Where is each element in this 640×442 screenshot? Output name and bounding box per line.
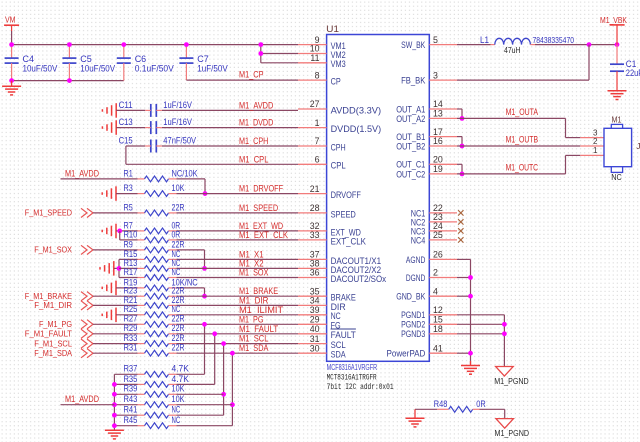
svg-text:SDA: SDA — [331, 349, 347, 360]
svg-text:R43: R43 — [124, 394, 138, 404]
svg-text:AGND: AGND — [406, 254, 426, 265]
svg-text:2: 2 — [593, 137, 598, 146]
svg-text:10uF/50V: 10uF/50V — [23, 64, 58, 74]
svg-text:FB_BK: FB_BK — [401, 75, 426, 86]
svg-text:M1_OUTA: M1_OUTA — [506, 107, 539, 117]
svg-text:L1: L1 — [480, 35, 489, 45]
svg-text:R37: R37 — [124, 364, 138, 374]
svg-text:R45: R45 — [124, 415, 138, 425]
svg-text:VM: VM — [5, 16, 16, 25]
svg-text:M1_VBK: M1_VBK — [600, 15, 627, 25]
svg-text:1uF/16V: 1uF/16V — [163, 100, 192, 110]
svg-text:AVDD(3.3V): AVDD(3.3V) — [331, 104, 382, 115]
svg-text:22R: 22R — [172, 202, 185, 212]
svg-text:47nF/50V: 47nF/50V — [163, 135, 196, 145]
svg-text:DRVOFF: DRVOFF — [331, 189, 362, 200]
svg-text:EXT_CLK: EXT_CLK — [331, 235, 367, 246]
svg-text:1: 1 — [593, 146, 598, 155]
svg-text:CPH: CPH — [331, 141, 346, 152]
svg-text:0R: 0R — [172, 229, 181, 239]
svg-text:19: 19 — [433, 164, 443, 174]
svg-text:1: 1 — [315, 118, 320, 128]
svg-text:R33: R33 — [124, 333, 138, 343]
svg-text:M1_PGND: M1_PGND — [495, 428, 530, 438]
svg-text:1uF/16V: 1uF/16V — [163, 117, 192, 127]
svg-text:M1_AVDD: M1_AVDD — [239, 100, 273, 111]
svg-text:47uH: 47uH — [504, 46, 521, 55]
svg-text:MCF8316A1VRGFR: MCF8316A1VRGFR — [327, 362, 378, 372]
svg-text:20: 20 — [433, 155, 443, 165]
svg-text:M1_EXT_CLK: M1_EXT_CLK — [239, 230, 289, 241]
svg-text:NC: NC — [172, 267, 181, 277]
svg-text:7: 7 — [315, 136, 320, 146]
svg-text:SW_BK: SW_BK — [401, 39, 426, 50]
svg-text:PowerPAD: PowerPAD — [387, 348, 426, 359]
svg-text:2: 2 — [433, 268, 438, 278]
svg-text:40: 40 — [310, 324, 320, 334]
svg-text:25: 25 — [433, 230, 443, 240]
svg-text:SPEED: SPEED — [331, 208, 356, 219]
svg-text:M1_OUTB: M1_OUTB — [506, 134, 539, 144]
svg-text:41: 41 — [433, 343, 443, 353]
svg-text:C15: C15 — [119, 135, 133, 145]
svg-text:F_M1_FAULT: F_M1_FAULT — [25, 329, 73, 339]
svg-text:R31: R31 — [124, 343, 138, 353]
svg-text:39: 39 — [310, 305, 320, 315]
svg-text:M1_CP: M1_CP — [239, 70, 264, 80]
svg-text:12: 12 — [433, 305, 443, 315]
svg-text:21: 21 — [310, 184, 320, 194]
svg-text:R39: R39 — [124, 384, 138, 394]
svg-text:C5: C5 — [80, 54, 92, 64]
svg-text:OUT_A2: OUT_A2 — [396, 113, 425, 124]
svg-text:33: 33 — [310, 230, 320, 240]
svg-text:F_M1_SCL: F_M1_SCL — [34, 338, 72, 348]
svg-text:26: 26 — [433, 250, 443, 260]
svg-text:NC: NC — [611, 172, 622, 182]
svg-text:R5: R5 — [124, 202, 133, 212]
svg-text:18: 18 — [433, 324, 443, 334]
svg-text:DACOUT2/SOx: DACOUT2/SOx — [331, 273, 387, 284]
svg-text:22R: 22R — [172, 239, 185, 249]
svg-text:0.1uF/50V: 0.1uF/50V — [135, 64, 174, 74]
svg-text:30: 30 — [310, 343, 320, 353]
svg-text:3: 3 — [433, 70, 438, 80]
svg-text:VM3: VM3 — [331, 58, 346, 69]
svg-text:C7: C7 — [197, 54, 209, 64]
svg-text:NC: NC — [172, 405, 181, 415]
svg-text:22R: 22R — [172, 314, 185, 324]
svg-text:NC/10K: NC/10K — [172, 168, 198, 178]
svg-text:R48: R48 — [434, 399, 448, 409]
svg-text:22R: 22R — [172, 323, 185, 333]
svg-text:78438335470: 78438335470 — [533, 35, 575, 45]
svg-text:1uF/50V: 1uF/50V — [197, 64, 227, 74]
svg-text:6: 6 — [315, 155, 320, 165]
svg-text:NC4: NC4 — [411, 234, 426, 245]
svg-text:29: 29 — [310, 315, 320, 325]
svg-text:0R: 0R — [476, 399, 486, 409]
svg-text:7bit I2C addr:0x01: 7bit I2C addr:0x01 — [327, 383, 394, 392]
svg-text:10K: 10K — [172, 183, 185, 193]
svg-text:4.7K: 4.7K — [172, 374, 189, 384]
svg-text:22uF: 22uF — [626, 68, 640, 78]
svg-text:DGND: DGND — [406, 272, 426, 283]
svg-text:22R: 22R — [172, 343, 185, 353]
svg-text:4: 4 — [433, 286, 438, 296]
svg-text:M1_CPH: M1_CPH — [239, 136, 268, 147]
svg-text:U1: U1 — [326, 24, 339, 34]
svg-text:NC: NC — [172, 304, 181, 314]
svg-text:F_M1_DIR: F_M1_DIR — [34, 300, 72, 310]
svg-text:R35: R35 — [124, 374, 138, 384]
svg-text:10uF/50V: 10uF/50V — [80, 64, 115, 74]
svg-text:4.7K: 4.7K — [172, 364, 189, 374]
svg-text:C6: C6 — [135, 54, 147, 64]
svg-text:R41: R41 — [124, 405, 138, 415]
svg-text:31: 31 — [310, 334, 320, 344]
svg-text:F_M1_PG: F_M1_PG — [39, 319, 72, 329]
svg-text:GND_BK: GND_BK — [396, 291, 426, 302]
svg-text:22R: 22R — [172, 333, 185, 343]
svg-text:R25: R25 — [124, 304, 138, 314]
svg-text:10K: 10K — [172, 394, 185, 404]
svg-text:NC: NC — [172, 415, 181, 425]
svg-text:8: 8 — [315, 70, 320, 80]
svg-text:R1: R1 — [124, 168, 133, 178]
svg-text:M1_SOX: M1_SOX — [239, 268, 269, 279]
svg-text:15: 15 — [433, 315, 443, 325]
svg-text:PGND3: PGND3 — [401, 328, 425, 339]
svg-text:J: J — [636, 141, 640, 151]
svg-text:F_M1_SPEED: F_M1_SPEED — [25, 208, 72, 218]
svg-text:M1_DVDD: M1_DVDD — [239, 118, 273, 129]
svg-text:28: 28 — [310, 203, 320, 213]
svg-text:11: 11 — [310, 53, 319, 63]
svg-text:OUT_B2: OUT_B2 — [396, 140, 425, 151]
svg-text:27: 27 — [310, 99, 320, 109]
svg-text:R3: R3 — [124, 183, 133, 193]
svg-text:10K: 10K — [172, 384, 185, 394]
svg-text:36: 36 — [310, 268, 320, 278]
svg-text:C13: C13 — [119, 117, 133, 127]
svg-text:16: 16 — [433, 136, 443, 146]
svg-text:M1_DRVOFF: M1_DRVOFF — [239, 184, 283, 195]
svg-text:F_M1_SDA: F_M1_SDA — [34, 348, 72, 358]
svg-text:M1_AVDD: M1_AVDD — [65, 168, 99, 178]
svg-text:CPL: CPL — [331, 160, 346, 171]
svg-text:13: 13 — [433, 109, 443, 119]
svg-text:C4: C4 — [23, 54, 35, 64]
svg-text:M1_OUTC: M1_OUTC — [506, 162, 539, 172]
svg-text:M1_AVDD: M1_AVDD — [65, 394, 99, 404]
svg-text:M1_PGND: M1_PGND — [494, 376, 529, 386]
svg-text:C11: C11 — [119, 100, 133, 110]
svg-text:F_M1_SOX: F_M1_SOX — [34, 245, 72, 255]
svg-text:OUT_C2: OUT_C2 — [396, 168, 425, 179]
svg-text:5: 5 — [433, 35, 438, 45]
svg-text:M1_SDA: M1_SDA — [239, 343, 269, 354]
svg-text:M1_CPL: M1_CPL — [239, 154, 268, 165]
svg-text:CP: CP — [331, 76, 341, 87]
svg-text:MCT8316A1TRGFR: MCT8316A1TRGFR — [327, 373, 377, 382]
svg-text:R10: R10 — [124, 229, 138, 239]
svg-text:M1_SPEED: M1_SPEED — [239, 203, 278, 214]
svg-text:R17: R17 — [124, 267, 138, 277]
svg-text:R9: R9 — [124, 239, 133, 249]
svg-text:R29: R29 — [124, 323, 138, 333]
svg-text:DVDD(1.5V): DVDD(1.5V) — [331, 123, 382, 134]
svg-text:M1: M1 — [612, 115, 622, 125]
